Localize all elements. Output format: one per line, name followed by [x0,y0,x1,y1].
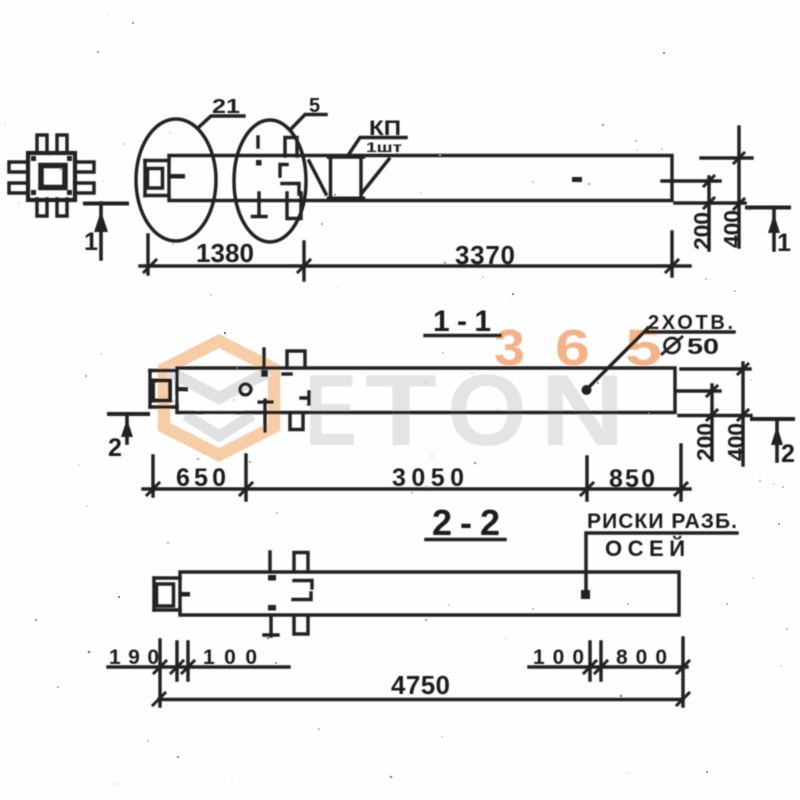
KP strap: right vertical [359,158,362,196]
section 2-2 embedded: plate below [294,617,308,634]
KP strap: left diagonal [309,161,326,194]
svg-text:650: 650 [176,464,226,492]
section mark 2 left: cut line [109,412,148,416]
section mark 1 left: arrow [94,211,108,232]
watermark logo hexagon ring [164,341,274,455]
label KP leader [349,138,406,155]
plan dim 200 ticks [704,176,714,208]
svg-text:2-2: 2-2 [432,502,500,543]
section 2-2 embedded: stud below [264,617,278,636]
svg-text:50: 50 [687,334,719,359]
svg-text:4750: 4750 [391,670,450,700]
KP strap: thickened beam edges [328,158,364,198]
section 2-2: tenon bottom [154,608,180,611]
KP strap: left vertical [329,158,332,196]
svg-text:ОСЕЙ: ОСЕЙ [605,536,685,561]
detail ellipse 5 [234,120,306,242]
plan dim 200 line [707,177,710,250]
watermark chevron gray upper [174,374,264,398]
section 1-1 embedded: plate below [290,413,303,430]
detail ellipse 21 [136,119,216,241]
plan dim 400 line [737,127,740,247]
2-2 dimension line right [529,665,687,668]
plan embedded: bracket upper [280,165,287,177]
watermark chevron gray lower [190,418,248,436]
section 1-1 dim 400 ticks [738,364,748,420]
plan embedded: bracket lower [282,184,299,195]
section mark 2 left: arrow [121,419,133,437]
title 1-1 underline [425,334,500,337]
plan dims right: hole axis extension [662,179,720,182]
plan embedded: stud line below [253,193,267,217]
hole dot 2 [582,385,592,395]
section mark 2 left: stem [125,414,129,443]
svg-text:1: 1 [84,228,98,256]
section 2-2 embedded: bracket upper [294,581,312,589]
label diameter sign [662,337,682,354]
section 1-1: axis tick [176,387,188,392]
svg-text:100: 100 [203,646,257,669]
section 1-1 embedded: bracket [301,392,309,404]
2-2 dimension line left [108,665,289,668]
section 1-1 dim slashes [147,483,687,495]
section mark 2 right: stem [775,419,779,461]
section 1-1: tenon recess rect [153,381,170,401]
cross-section tab bottom-right [57,199,67,216]
section 2-2: tenon top [154,576,180,579]
plan top edge extension [701,156,752,159]
plan view: riska mark [572,177,582,182]
svg-text:400: 400 [719,210,745,248]
section mark 1 right: stem [772,208,776,251]
label 2xotv leader [586,328,734,390]
plan dim extension right [670,232,673,276]
svg-text:2: 2 [108,434,122,462]
plan view: tenon bottom line [145,194,169,197]
plan embedded: plate below beam [287,193,301,219]
section mark 2 right: arrow [771,426,783,445]
plan dim extension left [146,235,149,274]
section 2-2 embedded: plate above [294,553,308,572]
section mark 1 left: cut line [85,202,127,206]
cross-section tab top-left [37,135,47,153]
svg-text:850: 850 [609,465,655,493]
section 2-2 embedded: stud above [268,552,271,571]
plan view: tenon recess rect [148,169,163,189]
svg-text:400: 400 [723,423,749,461]
cross-section tab bottom-left [37,199,47,216]
section 1-1 top extension [681,367,750,370]
section mark 1 right: cut line [747,206,789,210]
section 1-1 dims right: hole axis extension [676,389,720,392]
plan view: column outline [169,156,672,201]
svg-text:190: 190 [109,646,159,669]
svg-text:1: 1 [777,229,791,257]
plan embedded: stud square [256,160,262,166]
svg-text:21: 21 [212,96,240,118]
plan dim 400 ticks [734,153,744,209]
watermark text ETON [305,355,625,467]
plan view: axis tick [169,174,185,179]
plan embedded: plate above beam [285,138,297,157]
section mark 1 left: stem [99,203,103,259]
hole circle 1 [240,384,251,395]
2-2 dim slashes left [154,661,194,673]
section 1-1 embedded: plate above [287,351,305,367]
riska mark 2-2 [581,590,590,599]
section 2-2 embedded: square upper [268,575,276,581]
4750 dim slashes [153,693,689,705]
section 2-2 embedded: square lower [268,605,276,611]
plan dim slashes [144,260,678,272]
column cross-section symbol: inner square ring [41,166,65,188]
plan view: tenon top line [145,159,169,162]
plan embedded: stud line above [256,137,259,147]
plan dimension line [140,264,690,267]
cross-section tab right-upper [75,162,94,172]
svg-text:800: 800 [616,646,667,669]
plan view: tenon left line [143,161,146,196]
section 1-1: tenon left [148,371,151,408]
section 1-1 dim 200 line [710,385,713,460]
svg-text:5: 5 [309,95,320,117]
2-2 dim extensions left [160,640,188,706]
section mark 2 right: cut line [752,417,793,421]
section 1-1 embedded: stud below [259,400,272,431]
svg-text:1380: 1380 [196,238,254,268]
label riski leader [586,533,737,592]
svg-text:2: 2 [781,440,795,468]
section 1-1 embedded: stud square [261,370,268,377]
section 1-1 dim 200 ticks [707,386,717,420]
title 2-2 underline [426,538,505,541]
svg-text:1-1: 1-1 [433,305,491,338]
section 1-1: tenon bottom [150,405,177,408]
section 2-2: column outline [180,572,679,615]
column cross-section symbol: outer square [28,153,75,200]
2-2 dim slashes right [584,661,689,673]
svg-text:200: 200 [692,423,718,461]
section 2-2 embedded: bracket lower [293,593,311,600]
cross-section tab right-lower [75,183,94,193]
section 1-1 dimension line [143,487,690,490]
section 1-1 bottom extension [679,414,751,417]
section 1-1 embedded: tick [283,372,291,375]
plan bottom edge extension [675,201,745,204]
svg-text:РИСКИ РАЗБ.: РИСКИ РАЗБ. [587,510,737,533]
section mark 1 right: arrow [768,214,780,233]
section 1-1: tenon top [150,369,177,372]
cross-section tab left-upper [9,162,28,172]
svg-text:200: 200 [689,212,715,250]
section 1-1: column outline [177,368,675,413]
section 1-1 dim extensions [153,445,681,500]
watermark chevron white mid [181,396,257,417]
watermark text 365 [494,319,662,376]
svg-text:100: 100 [533,646,584,669]
cross-section tab top-right [57,135,67,153]
section 2-2: tenon left [152,578,155,610]
plan dim extension mid [302,242,305,280]
svg-text:3370: 3370 [455,240,515,270]
section 2-2: tenon recess rect [157,584,174,606]
section 1-1 dim 400 line [741,363,744,465]
svg-text:1шт: 1шт [366,139,402,155]
svg-text:КП: КП [369,117,401,140]
label 5 leader [291,115,326,130]
label 21 leader [199,116,244,127]
cross-section corner dots [31,156,72,195]
section 1-1 embedded: stud above [262,349,265,367]
section 2-2: axis tick [180,592,190,597]
2-2 dim extensions right [590,638,683,706]
dimension line 4750 [159,698,683,701]
KP strap: right diagonal [362,159,389,193]
cross-section tab left-lower [9,183,28,193]
